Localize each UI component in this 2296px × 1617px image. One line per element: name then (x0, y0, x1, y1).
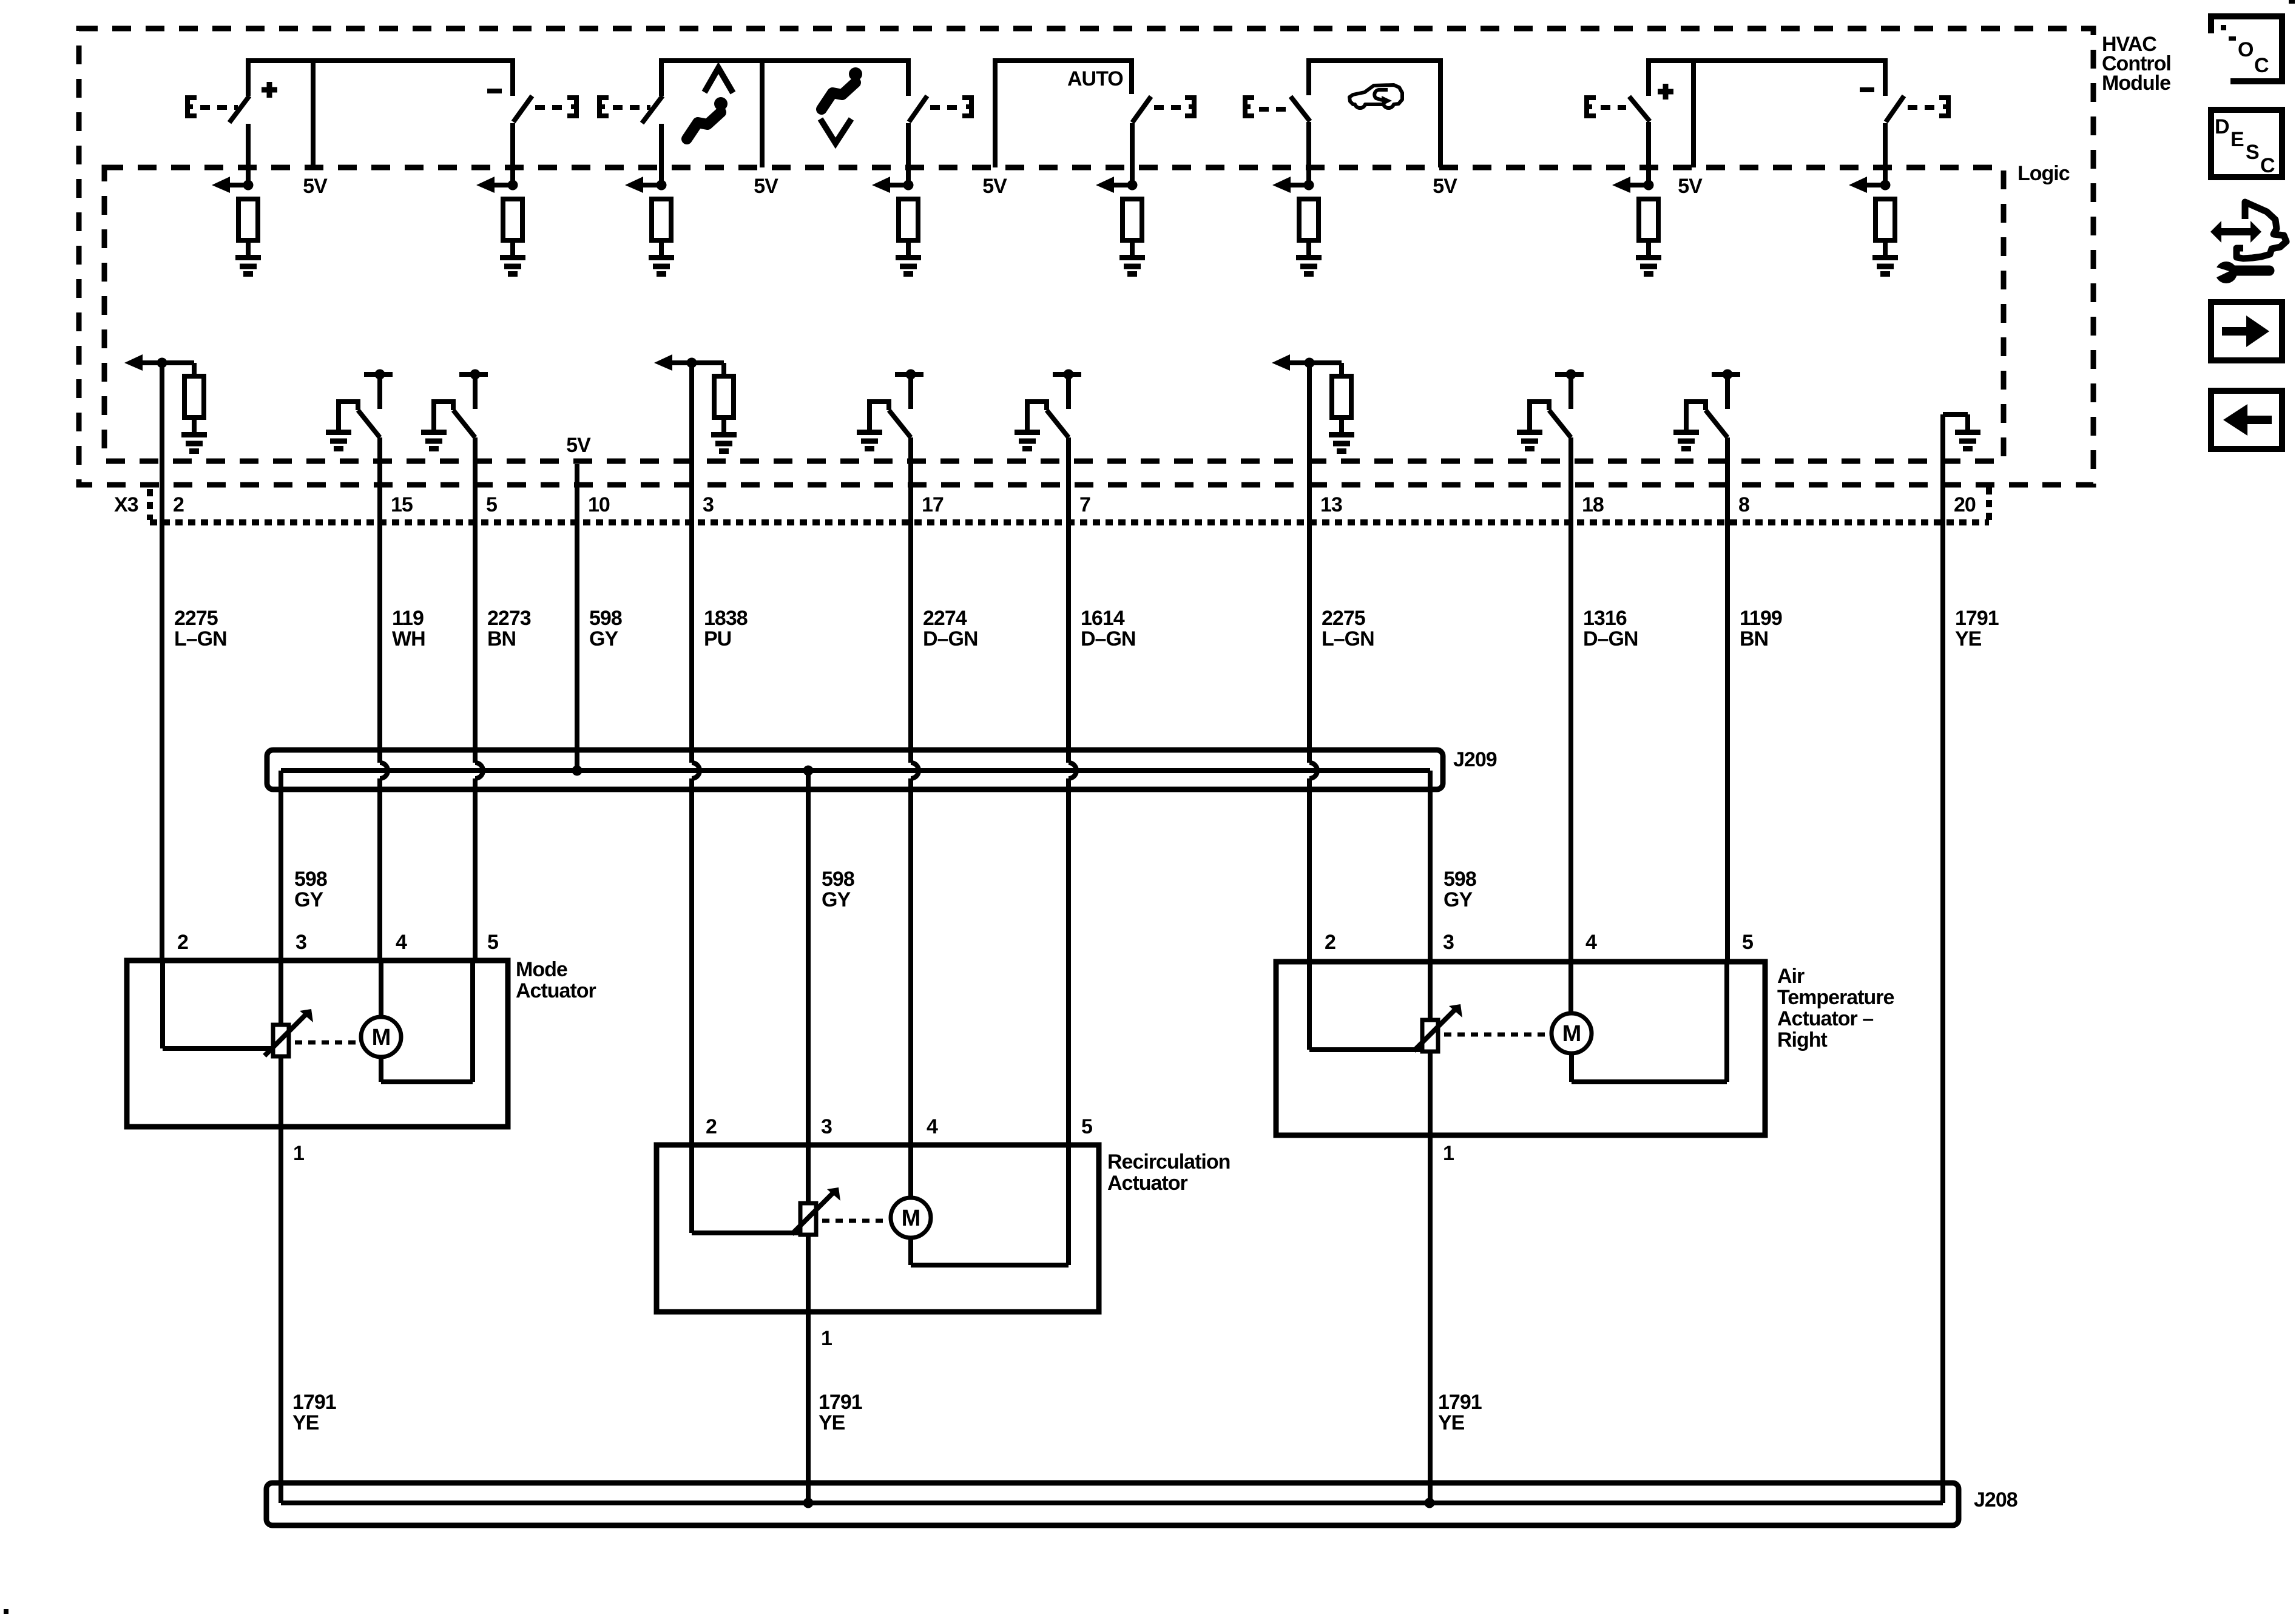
svg-text:Recirculation: Recirculation (1107, 1150, 1230, 1173)
switch S6 bracket (1245, 95, 1254, 118)
svg-text:L–GN: L–GN (174, 627, 227, 650)
wire pin2 X3 to Mode Actuator pin2 (160, 363, 164, 960)
wire Mode pin1 to J208 (279, 1127, 283, 1503)
svg-text:1: 1 (1443, 1142, 1454, 1165)
switch SW18 contact T-bar (1555, 370, 1584, 410)
svg-text:D: D (2215, 115, 2229, 138)
Air Temperature Actuator label (1777, 965, 1894, 1052)
AUTO label (1067, 67, 1123, 90)
svg-text:1614: 1614 (1081, 607, 1125, 630)
svg-text:1791: 1791 (292, 1391, 336, 1414)
svg-text:1316: 1316 (1583, 607, 1627, 630)
wire pin8 X3 (1199 BN) (1725, 437, 1730, 962)
wire pin13 X3 (2275 L-GN) upper (1307, 363, 1312, 763)
switch SW8 contact T-bar (1712, 370, 1740, 410)
wire pin5 to Mode pin5 lower (473, 778, 478, 960)
svg-text:3: 3 (1443, 931, 1454, 954)
potentiometer AirTemp wiper arrow (1414, 1004, 1462, 1051)
ground G5 (1119, 258, 1145, 274)
svg-text:1791: 1791 (1438, 1391, 1482, 1414)
svg-text:598: 598 (589, 607, 622, 630)
svg-text:18: 18 (1582, 493, 1604, 516)
wire Recirc pin3 through pot (806, 1145, 811, 1312)
switch S5 actuator dashes (1154, 105, 1182, 110)
wire pin3 to Recirc pin2 lower (689, 778, 694, 1145)
svg-text:5V: 5V (566, 434, 591, 457)
resistor R8 (1876, 199, 1895, 240)
svg-text:5V: 5V (982, 175, 1007, 198)
connector X3 label (114, 493, 138, 516)
svg-text:AUTO: AUTO (1067, 67, 1123, 90)
switch SW7 step contact (1027, 399, 1047, 432)
wire AirTemp motor bottom loop (1572, 1053, 1727, 1082)
5V label group D (1433, 175, 1457, 198)
OC diagnostic icon (2211, 16, 2282, 81)
switch SW18 step contact (1530, 399, 1549, 432)
connector X3 right dotted separator (1986, 487, 1992, 522)
wire pin20 X3 (1791 YE) (1940, 414, 1945, 1503)
junction dot 598 GY at J209 (572, 766, 582, 776)
ground G6 (1296, 258, 1322, 274)
next-page arrow icon (2211, 302, 2282, 360)
switch S8 actuator dashes (1908, 105, 1936, 110)
wire Mode pin5 internal (470, 960, 475, 1082)
Recirc pin1 label (821, 1327, 832, 1350)
svg-text:Air: Air (1777, 965, 1805, 988)
wire pin5 X3 (2273 BN) upper (473, 437, 478, 763)
wire R4-ground (906, 240, 911, 257)
wire loop sw7-sw8 (1649, 61, 1885, 96)
wire circuit number labels (174, 607, 1999, 650)
ground of switch SW18 (1517, 433, 1542, 449)
minus label S2 (487, 89, 502, 93)
switch S2 blade (-) (513, 96, 532, 122)
wire S4 lower contact (906, 123, 911, 185)
switch SW18 blade (1549, 410, 1571, 437)
signal arrow S5 (1096, 177, 1138, 193)
svg-text:17: 17 (922, 493, 944, 516)
svg-text:5V: 5V (303, 175, 328, 198)
svg-text:5: 5 (1742, 931, 1753, 954)
svg-text:20: 20 (1954, 493, 1976, 516)
svg-text:1199: 1199 (1740, 607, 1782, 630)
wire hop over J209 (119 WH) (380, 763, 388, 778)
AirTemp pin1 label (1443, 1142, 1454, 1165)
svg-text:4: 4 (396, 931, 407, 954)
svg-text:8: 8 (1738, 493, 1749, 516)
potentiometer Mode wiper arrow (265, 1009, 313, 1056)
junction dot Recirc 1791 YE at J208 (803, 1498, 814, 1508)
Recirculation Actuator box (657, 1145, 1099, 1312)
resistor branch IN2 (162, 363, 194, 376)
signal arrow S4 (872, 177, 914, 193)
resistor branch IN3 (692, 363, 724, 376)
dashed link pot-motor Recirc (822, 1219, 889, 1223)
wire AirTemp pin1 to J208 (1428, 1135, 1433, 1503)
switch SW15 contact T-bar (364, 370, 393, 410)
potentiometer AirTemp (1422, 1020, 1438, 1052)
wire S3 lower contact (659, 124, 664, 185)
svg-text:D–GN: D–GN (1583, 627, 1638, 650)
motor M Recirc (891, 1198, 931, 1238)
wire Recirc pin1 to J208 (806, 1312, 811, 1503)
recirculation car icon (1349, 85, 1402, 108)
HVAC Control Module label (2102, 33, 2171, 95)
label 598 GY middle (822, 868, 854, 911)
svg-text:GY: GY (822, 888, 851, 911)
dashed link pot-motor Mode (295, 1041, 359, 1045)
svg-text:4: 4 (1585, 931, 1597, 954)
svg-text:Logic: Logic (2017, 162, 2070, 185)
HVAC Control Module dashed boundary box (79, 29, 2093, 485)
svg-text:M: M (902, 1206, 920, 1231)
wire J209 to Recirc pin3 (598 GY) (806, 771, 811, 1145)
wire resistor-IN13-ground (1339, 417, 1344, 434)
wire AirTemp pin3 through pot (1428, 962, 1433, 1135)
svg-text:BN: BN (1740, 627, 1768, 650)
wire pin15 X3 (119 WH) upper (377, 437, 382, 763)
connector X3 dotted bottom line (150, 519, 1989, 525)
svg-text:E: E (2230, 128, 2244, 151)
signal arrow S3 (625, 177, 667, 193)
ground of IN2 (181, 435, 207, 451)
switch SW17 contact T-bar (895, 370, 923, 410)
wire pin3 X3 (1838 PU) upper (689, 363, 694, 763)
svg-text:1791: 1791 (819, 1391, 862, 1414)
svg-text:3: 3 (295, 931, 306, 954)
ground of switch SW17 (857, 433, 882, 449)
ground hook pin20 (1943, 414, 1968, 432)
resistor R2 (503, 199, 522, 240)
svg-text:4: 4 (927, 1115, 938, 1138)
page corner mark top-right (2289, 0, 2295, 4)
switch S3 actuator dashes (613, 105, 650, 110)
ground of IN3 (711, 435, 737, 451)
potentiometer Mode (273, 1025, 289, 1056)
wire Recirc pin2 internal (692, 1145, 799, 1233)
wire S2 lower contact (510, 123, 515, 185)
svg-text:C: C (2260, 154, 2275, 177)
ground of switch SW15 (326, 433, 351, 449)
wire pin17 to Recirc pin4 lower (908, 778, 913, 1145)
svg-text:D–GN: D–GN (923, 627, 977, 650)
svg-text:15: 15 (391, 493, 413, 516)
signal arrow S7 (1612, 177, 1654, 193)
switch SW7 contact T-bar (1053, 370, 1081, 410)
icon box divider / 5V supply drop group B (760, 61, 765, 167)
Logic dashed boundary box (104, 167, 2004, 461)
resistor R4 (899, 199, 918, 240)
signal arrow IN2 (124, 354, 167, 371)
switch S4 actuator dashes (930, 105, 958, 110)
svg-text:2: 2 (177, 931, 188, 954)
wrench repair icon (2210, 202, 2286, 283)
wire pin13 to AirTemp pin2 lower (1307, 778, 1312, 962)
switch S7 blade (+) (1629, 96, 1650, 121)
splice pack J208 outer box (266, 1483, 1959, 1525)
wire resistor-IN3-ground (721, 417, 726, 434)
ground G20 (1955, 433, 1980, 449)
ground of switch SW8 (1673, 433, 1699, 449)
resistor R7 (1639, 199, 1658, 240)
svg-text:D–GN: D–GN (1081, 627, 1135, 650)
svg-text:M: M (1562, 1021, 1581, 1047)
switch SW5 step contact (434, 399, 453, 432)
resistor R3 (652, 199, 671, 240)
splice pack J209 bus line (281, 768, 1430, 773)
resistor R6 (1299, 199, 1319, 240)
switch S7 actuator dashes (1601, 105, 1626, 110)
svg-text:Module: Module (2102, 72, 2170, 95)
switch S6 blade (recirc) (1291, 96, 1310, 121)
svg-text:119: 119 (392, 607, 424, 630)
wire Mode pin4 to motor (379, 960, 383, 1017)
svg-text:Actuator –: Actuator – (1777, 1007, 1873, 1030)
svg-text:J208: J208 (1974, 1488, 2017, 1511)
svg-text:Right: Right (1777, 1028, 1828, 1052)
switch SW5 contact T-bar (459, 370, 488, 410)
svg-text:M: M (372, 1025, 391, 1050)
svg-text:3: 3 (821, 1115, 832, 1138)
prev-page arrow icon (2211, 391, 2282, 449)
svg-text:S: S (2246, 141, 2259, 164)
wire pin7 to Recirc pin5 lower (1066, 778, 1071, 1145)
wire pin10 5V to J209 (575, 464, 579, 771)
5V label pin10 (566, 434, 591, 457)
svg-text:5: 5 (487, 931, 498, 954)
Mode pin labels (177, 931, 498, 954)
resistor R1 (238, 199, 258, 240)
svg-text:WH: WH (392, 627, 425, 650)
wire pin7 X3 (1614 D-GN) upper (1066, 437, 1071, 763)
switch SW8 blade (1706, 410, 1727, 437)
motor M AirTemp (1551, 1013, 1592, 1053)
svg-text:5V: 5V (1433, 175, 1457, 198)
wire S8 lower contact (1883, 123, 1888, 185)
ground G2 (500, 258, 525, 274)
svg-text:GY: GY (589, 627, 618, 650)
5V label group B (754, 175, 778, 198)
signal arrow S2 (476, 177, 518, 193)
switch SW15 blade (358, 410, 380, 437)
wire S6 lower contact (1306, 122, 1311, 185)
dashed link pot-motor AirTemp (1444, 1033, 1547, 1037)
svg-text:O: O (2238, 38, 2254, 61)
svg-text:2273: 2273 (487, 607, 531, 630)
ground of IN13 (1329, 435, 1354, 451)
splice pack J208 bus line (281, 1501, 1943, 1505)
motor M Mode (361, 1017, 401, 1057)
svg-text:PU: PU (704, 627, 731, 650)
svg-text:2275: 2275 (1322, 607, 1365, 630)
signal arrow S1 (212, 177, 254, 193)
signal arrow S6 (1272, 177, 1314, 193)
svg-text:598: 598 (294, 868, 327, 891)
svg-text:5: 5 (1081, 1115, 1092, 1138)
ground G4 (896, 258, 921, 274)
wire loop sw6 / 5V drop group D (1309, 61, 1440, 167)
svg-text:2274: 2274 (923, 607, 967, 630)
wire resistor-IN2-ground (192, 417, 197, 434)
wire J209 to AirTemp pin3 (598 GY) (1428, 771, 1433, 962)
svg-text:Actuator: Actuator (516, 979, 596, 1002)
wire R1-ground (246, 240, 251, 257)
5V label group A (303, 175, 328, 198)
svg-text:X3: X3 (114, 493, 138, 516)
ground G8 (1872, 258, 1898, 274)
wire S1 lower contact (246, 124, 251, 185)
wire Recirc pin5 internal (1066, 1145, 1071, 1265)
ground G7 (1636, 258, 1661, 274)
Mode Actuator box (127, 960, 508, 1127)
Recirc pin labels (706, 1115, 1092, 1138)
svg-text:2275: 2275 (174, 607, 218, 630)
plus label S7 (1658, 84, 1673, 100)
wire R3-ground (659, 240, 664, 257)
switch S2 bracket (567, 95, 576, 118)
5V label group E (1678, 175, 1703, 198)
switch S3 blade (seat up) (642, 96, 663, 123)
wire hop over J209 (2273 BN) (475, 763, 483, 778)
switch SW5 blade (453, 410, 475, 437)
resistor branch IN13 (1309, 363, 1342, 376)
switch SW17 step contact (869, 399, 889, 432)
Recirculation Actuator label (1107, 1150, 1230, 1195)
signal arrow S8 (1849, 177, 1891, 193)
wire hop over J209 (1614 D-GN) (1069, 763, 1076, 778)
svg-text:7: 7 (1079, 493, 1090, 516)
resistor IN13 (1332, 376, 1351, 417)
Mode pin1 label (293, 1142, 304, 1165)
X3 pin number labels (173, 493, 1976, 516)
junction dot AirTemp 1791 YE at J208 (1425, 1498, 1435, 1508)
svg-text:YE: YE (1438, 1411, 1465, 1434)
svg-text:GY: GY (1443, 888, 1473, 911)
wire AirTemp pin4 to motor (1568, 962, 1573, 1013)
seat-up icon (687, 68, 733, 139)
wire AirTemp pin2 internal (1309, 962, 1420, 1050)
5V supply drop group E (1691, 61, 1696, 167)
wire S5 lower contact (1130, 123, 1135, 185)
wire R5-ground (1130, 240, 1135, 257)
svg-text:1791: 1791 (1955, 607, 1999, 630)
label 1791 YE left (292, 1391, 336, 1434)
switch S5 blade (AUTO) (1132, 96, 1151, 123)
svg-text:C: C (2254, 54, 2269, 77)
wire loop sw3-sw4 (661, 61, 908, 96)
5V label group C (982, 175, 1007, 198)
plus label S1 (262, 82, 277, 98)
wire pin15 to Mode pin4 lower (377, 778, 382, 960)
svg-text:598: 598 (1443, 868, 1476, 891)
switch SW8 step contact (1686, 399, 1706, 432)
svg-text:2: 2 (173, 493, 184, 516)
svg-text:598: 598 (822, 868, 854, 891)
wire R7-ground (1646, 240, 1651, 257)
wire R8-ground (1883, 240, 1888, 257)
junction dot recirc 598 GY at J209 (803, 766, 814, 776)
switch S1 bracket (187, 95, 197, 118)
wire Recirc pin4 to motor (908, 1145, 913, 1198)
ground of switch SW5 (421, 433, 447, 449)
svg-text:YE: YE (1955, 627, 1982, 650)
wire AirTemp pin5 internal (1724, 962, 1729, 1082)
Logic label (2017, 162, 2070, 185)
ground G1 (235, 258, 261, 274)
page corner mark bottom-left (4, 1609, 8, 1614)
resistor R5 (1123, 199, 1142, 240)
wire S7 lower contact (1646, 122, 1651, 185)
wire Recirc motor bottom loop (911, 1238, 1069, 1265)
wire pin18 X3 (1316 D-GN) (1568, 437, 1573, 962)
svg-text:GY: GY (294, 888, 323, 911)
Mode Actuator label (516, 958, 596, 1002)
wire loop sw1-sw2 (248, 61, 513, 96)
ground of switch SW7 (1015, 433, 1040, 449)
splice pack J208 label (1974, 1488, 2017, 1511)
switch S8 blade (-) (1886, 96, 1904, 122)
svg-text:10: 10 (588, 493, 610, 516)
resistor IN2 (184, 376, 204, 417)
switch S4 blade (seat down) (909, 96, 927, 122)
wire R6-ground (1306, 240, 1311, 257)
svg-text:YE: YE (819, 1411, 845, 1434)
wire pin17 X3 (2274 D-GN) upper (908, 437, 913, 763)
potentiometer Recirc wiper arrow (792, 1187, 840, 1234)
svg-text:5V: 5V (1678, 175, 1703, 198)
minus label S8 (1860, 87, 1874, 92)
switch SW7 blade (1047, 410, 1069, 437)
svg-text:13: 13 (1320, 493, 1342, 516)
label 598 GY right (1443, 868, 1476, 911)
switch S1 blade (+) (229, 96, 249, 123)
label 1791 YE right (1438, 1391, 1482, 1434)
svg-text:Temperature: Temperature (1777, 986, 1894, 1009)
switch S1 actuator dashes (200, 105, 238, 110)
switch SW15 step contact (339, 399, 358, 432)
wire hop over J209 (2274 D-GN) (911, 763, 919, 778)
svg-text:5: 5 (486, 493, 497, 516)
splice pack J209 label (1453, 748, 1497, 771)
wire R2-ground (510, 240, 515, 257)
seat-down icon (820, 67, 862, 143)
ground G3 (649, 258, 674, 274)
label 1791 YE middle (819, 1391, 862, 1434)
Air Temperature Actuator box (1276, 962, 1765, 1135)
wire Mode pin3 through pot (279, 960, 283, 1127)
resistor IN3 (714, 376, 734, 417)
svg-text:L–GN: L–GN (1322, 627, 1374, 650)
switch S2 actuator dashes (535, 105, 563, 110)
switch S3 bracket (599, 95, 609, 118)
svg-text:2: 2 (1325, 931, 1335, 954)
svg-text:1838: 1838 (704, 607, 748, 630)
wire J209 to Mode pin3 (598 GY) (279, 771, 283, 960)
AUTO box / 5V supply drop group C (995, 61, 1132, 167)
svg-text:BN: BN (487, 627, 516, 650)
wire Mode motor bottom loop (381, 1057, 473, 1082)
splice pack J209 outer box (267, 750, 1443, 789)
switch S4 bracket (962, 95, 971, 118)
switch S5 bracket (1185, 95, 1194, 118)
signal arrow IN13 (1272, 354, 1315, 371)
svg-text:Mode: Mode (516, 958, 567, 981)
signal arrow IN3 (654, 354, 697, 371)
svg-text:1: 1 (821, 1327, 832, 1350)
connector X3 left dotted separator (147, 489, 153, 520)
svg-text:YE: YE (292, 1411, 319, 1434)
label 598 GY left (294, 868, 327, 911)
